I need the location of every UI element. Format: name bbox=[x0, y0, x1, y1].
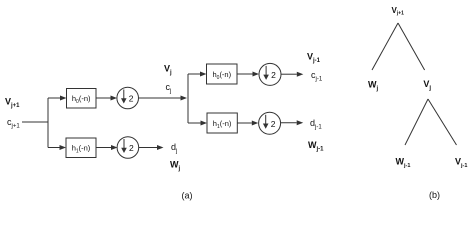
wire filter h0 to downsampler stage2 bbox=[237, 73, 253, 75]
svg-text:dj-1: dj-1 bbox=[310, 118, 322, 131]
filter block h1(-n) stage1 bbox=[66, 138, 96, 158]
svg-text:cj: cj bbox=[166, 82, 172, 95]
filter block h1(-n) stage2 bbox=[207, 113, 237, 133]
filter block h0(-n) stage2 bbox=[207, 64, 238, 84]
svg-text:Vj-1: Vj-1 bbox=[307, 52, 321, 65]
tree edge V_j to V_j-1 bbox=[428, 99, 457, 145]
svg-text:h0(-n): h0(-n) bbox=[212, 70, 231, 81]
svg-text:h1(-n): h1(-n) bbox=[72, 143, 91, 154]
wire input bbox=[22, 121, 48, 123]
svg-text:2: 2 bbox=[129, 143, 134, 153]
wire junction 2 vertical bbox=[187, 74, 189, 123]
tree edge root to W_j bbox=[372, 23, 398, 70]
svg-text:Vj: Vj bbox=[423, 79, 431, 92]
svg-text:h0(-n): h0(-n) bbox=[72, 94, 91, 105]
tree edge V_j to W_j-1 bbox=[405, 99, 428, 145]
svg-text:2: 2 bbox=[129, 94, 134, 104]
svg-text:Wj: Wj bbox=[170, 160, 181, 173]
svg-text:2: 2 bbox=[271, 70, 276, 80]
svg-text:(b): (b) bbox=[429, 190, 440, 200]
svg-text:Vj-1: Vj-1 bbox=[455, 157, 467, 170]
svg-text:(a): (a) bbox=[182, 190, 193, 200]
wire to filter h0 stage1 bbox=[48, 97, 61, 99]
svg-text:h1(-n): h1(-n) bbox=[213, 119, 232, 130]
wire downsampler stage2 bottom output bbox=[281, 122, 297, 124]
svg-text:Vj+1: Vj+1 bbox=[5, 97, 20, 110]
wire filter h1 to downsampler stage2 bbox=[237, 122, 252, 124]
wire junction 1 vertical bbox=[47, 98, 49, 148]
downsampler circle stage2 top bbox=[259, 63, 281, 85]
wire to filter h0 stage2 bbox=[188, 73, 200, 75]
svg-text:2: 2 bbox=[271, 119, 276, 129]
wire filter h1 to downsampler stage1 bbox=[96, 147, 111, 149]
svg-text:cj-1: cj-1 bbox=[311, 70, 323, 83]
svg-text:cj+1: cj+1 bbox=[7, 117, 20, 130]
wire downsampler stage1 bottom output bbox=[139, 147, 157, 149]
tree edge root to V_j bbox=[398, 23, 425, 70]
filter block h0(-n) stage1 bbox=[67, 89, 97, 109]
downsampler circle stage2 bottom bbox=[259, 112, 281, 134]
wire downsampler stage2 top output bbox=[281, 73, 297, 75]
svg-text:Wj-1: Wj-1 bbox=[396, 157, 411, 170]
wire downsampler to junction 2 bbox=[139, 97, 181, 99]
svg-text:Vj+1: Vj+1 bbox=[392, 6, 405, 17]
downsampler circle stage1 bottom bbox=[117, 137, 139, 159]
svg-text:Wj-1: Wj-1 bbox=[308, 140, 324, 153]
downsampler circle stage1 top bbox=[117, 87, 139, 109]
svg-text:Wj: Wj bbox=[368, 80, 379, 93]
svg-text:Vj: Vj bbox=[164, 64, 172, 77]
wire to filter h1 stage1 bbox=[48, 147, 60, 149]
wire filter h0 to downsampler stage1 bbox=[96, 97, 111, 99]
wire to filter h1 stage2 bbox=[188, 122, 201, 124]
svg-text:dj: dj bbox=[171, 142, 177, 155]
